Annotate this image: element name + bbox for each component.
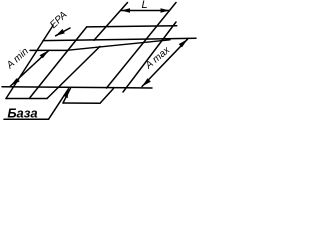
wire: plane left front edge <box>47 46 100 98</box>
arrowhead L left <box>121 8 130 12</box>
arrowhead A max top <box>179 39 188 47</box>
leader База <box>49 89 69 120</box>
wire: base near horizontal long line D <box>2 87 152 88</box>
wire: База underline <box>4 118 49 120</box>
arrowhead A min bottom <box>11 78 20 86</box>
arrowhead База <box>63 89 68 98</box>
svg-text:База: База <box>7 105 37 120</box>
wire: lower parallel line C <box>30 49 67 51</box>
wire: center base plane left edge <box>63 88 71 103</box>
wire: axis inclined line <box>67 40 170 51</box>
dimension A min line <box>11 50 49 86</box>
wire: L dimension left extension line <box>94 3 128 41</box>
wire: upper parallel line B <box>43 38 196 40</box>
wire: center base plane near edge <box>63 102 100 104</box>
wire: center base plane right edge <box>100 88 114 103</box>
wire: plane left edge S2 <box>30 27 87 98</box>
wire: plane far edge A <box>87 26 177 27</box>
arrowhead A max bottom <box>142 78 151 86</box>
arrowhead L right <box>161 8 170 12</box>
svg-text:EPA: EPA <box>48 9 70 31</box>
svg-text:L: L <box>141 0 147 11</box>
wire: plane right edge R2 <box>123 22 176 92</box>
leader EPA <box>56 28 70 36</box>
dimension A max line <box>142 39 188 86</box>
wire: left small plane near edge E <box>6 98 47 100</box>
wire: left section line S1 <box>6 26 53 99</box>
wire: right extension line <box>107 3 177 89</box>
svg-text:A min: A min <box>4 46 31 72</box>
arrowhead EPA <box>56 29 65 36</box>
arrowhead A min top <box>40 50 49 58</box>
dimension L line <box>121 10 170 12</box>
